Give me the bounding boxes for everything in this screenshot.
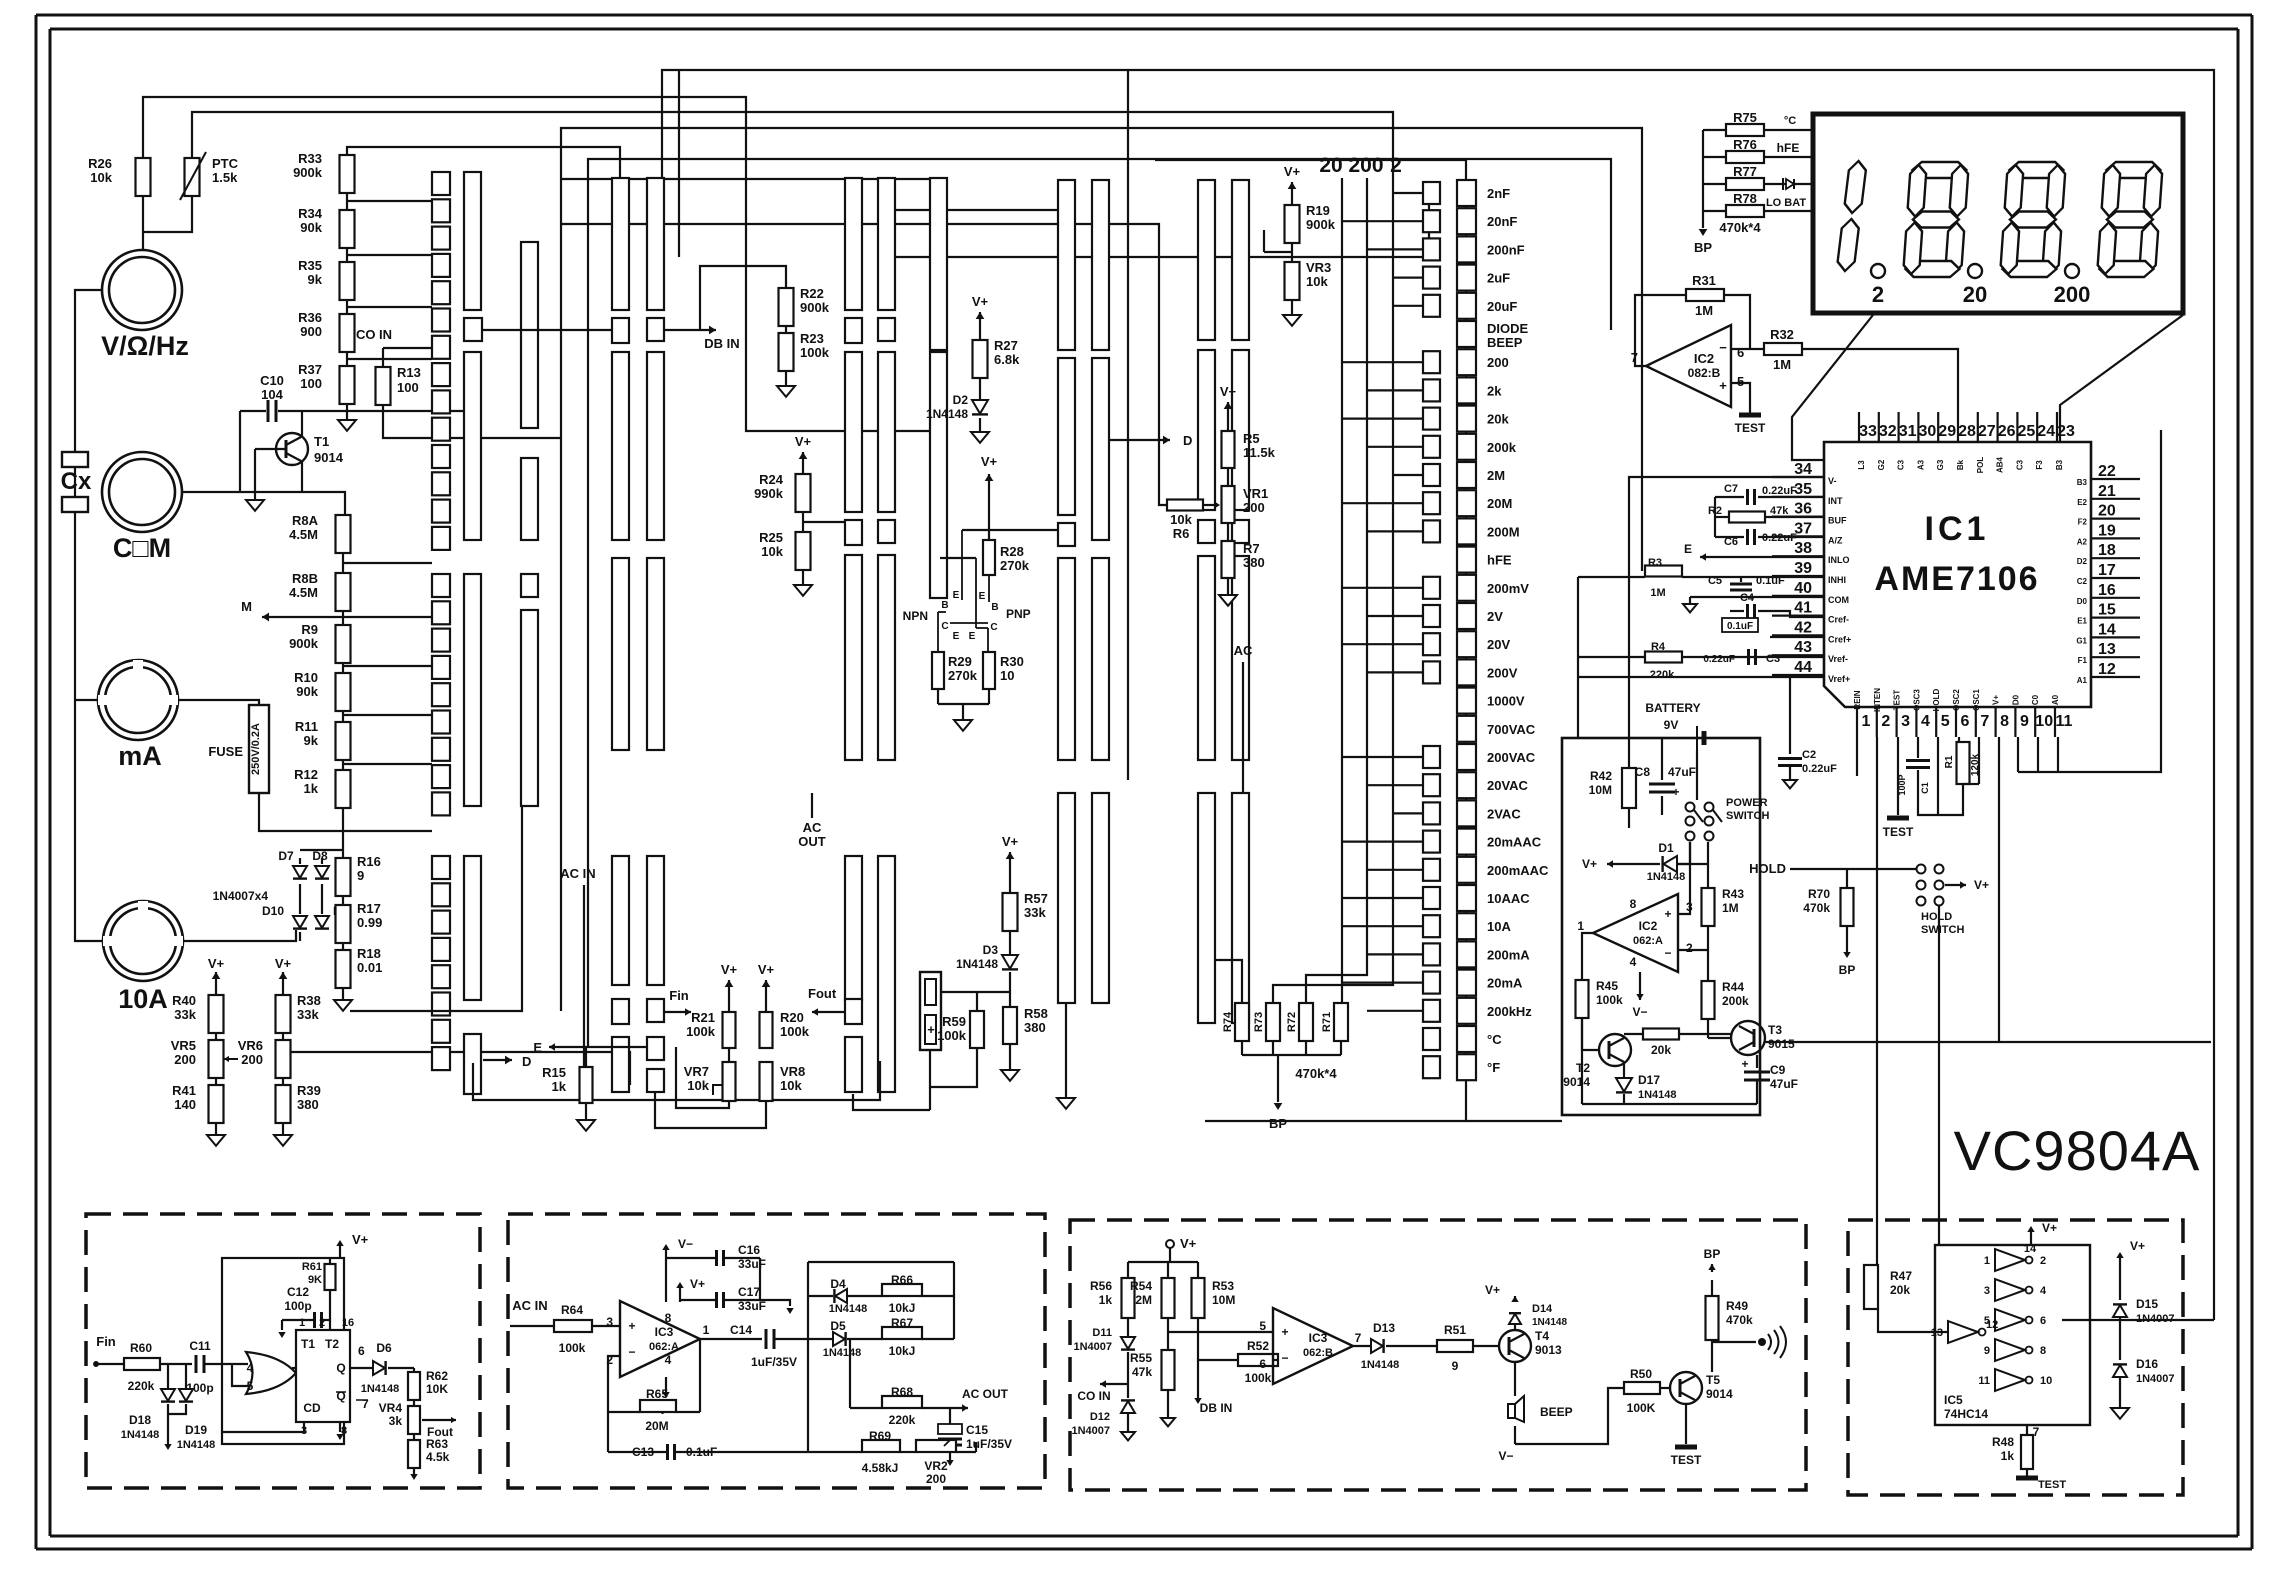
wire T3 <box>1707 1019 1709 1038</box>
wire VR1-R7 <box>1227 523 1229 541</box>
svg-text:VR1: VR1 <box>1243 486 1268 501</box>
resistor R28 270k <box>983 540 995 575</box>
svg-text:HOLD: HOLD <box>1749 861 1786 876</box>
resistor R55 47k <box>1162 1350 1175 1390</box>
resistor R69 4.58kJ <box>862 1440 900 1452</box>
svg-text:17: 17 <box>2098 562 2116 579</box>
wire DB IN to R22 <box>700 266 786 330</box>
wire T4 emitter <box>1514 1362 1516 1396</box>
power V- IC3A bottom <box>665 1377 667 1392</box>
svg-text:1M: 1M <box>1695 303 1713 318</box>
svg-text:11: 11 <box>1978 1375 1990 1387</box>
node Fout box1 <box>422 1419 456 1421</box>
svg-text:BUF: BUF <box>1828 516 1847 526</box>
resistor R15 1k <box>585 1047 587 1067</box>
svg-text:C: C <box>941 621 948 632</box>
svg-text:V+: V+ <box>1180 1236 1197 1251</box>
svg-text:900k: 900k <box>289 636 319 651</box>
resistor R7 380 <box>1222 541 1235 578</box>
svg-text:37: 37 <box>1794 520 1812 537</box>
wire IC4 pins <box>292 1367 296 1369</box>
capacitor C2 0.22uF <box>1789 677 1791 754</box>
svg-text:R25: R25 <box>759 530 783 545</box>
switch bar column S3 <box>521 242 538 428</box>
svg-text:10: 10 <box>2035 713 2053 730</box>
resistor R68 220k <box>882 1396 922 1408</box>
chip IC1 right pins 22-12 <box>2091 478 2140 480</box>
wire top bus E <box>588 159 1611 1047</box>
svg-text:4: 4 <box>1630 955 1637 969</box>
svg-text:R43: R43 <box>1722 887 1744 901</box>
resistor R18 0.01 <box>336 950 351 988</box>
switch bar column M3a <box>1058 180 1075 350</box>
svg-text:V+: V+ <box>972 294 989 309</box>
ground D12 <box>1127 1412 1129 1432</box>
svg-text:R9: R9 <box>301 622 318 637</box>
svg-text:9013: 9013 <box>1535 1343 1562 1357</box>
resistor R36 900 <box>340 314 355 352</box>
svg-text:270k: 270k <box>1000 558 1030 573</box>
node M arrow <box>342 611 344 625</box>
svg-text:74HC14: 74HC14 <box>1944 1407 1988 1421</box>
trimmer VR8 10k <box>760 1062 773 1101</box>
svg-text:DIODE: DIODE <box>1487 321 1529 336</box>
wire R19-VR3 <box>1291 243 1293 262</box>
svg-text:1: 1 <box>1984 1255 1990 1267</box>
wire IC2B pin5 TEST <box>1731 383 1750 413</box>
svg-text:200V: 200V <box>1487 665 1518 680</box>
svg-text:4.5k: 4.5k <box>426 1450 450 1464</box>
svg-text:100p: 100p <box>284 1299 311 1313</box>
trimmer VR1 200 <box>1222 486 1235 523</box>
svg-text:E: E <box>533 1040 542 1055</box>
svg-text:V+: V+ <box>981 454 998 469</box>
wire R8A-R8B <box>342 553 344 573</box>
resistor R63 4.5k <box>408 1440 420 1468</box>
svg-text:V+: V+ <box>208 956 225 971</box>
ground R39 <box>282 1123 284 1135</box>
fuse FUSE 250V/0.2A <box>249 705 269 793</box>
svg-text:R68: R68 <box>891 1385 913 1399</box>
node CO IN box3 <box>1100 1383 1128 1385</box>
svg-text:220k: 220k <box>1650 669 1675 681</box>
svg-text:D: D <box>522 1054 531 1069</box>
inverter IC5 gate 9-8 <box>1995 1339 2025 1361</box>
svg-text:39: 39 <box>1794 560 1812 577</box>
svg-text:R65: R65 <box>646 1387 668 1401</box>
svg-text:C14: C14 <box>730 1323 752 1337</box>
svg-text:200kHz: 200kHz <box>1487 1004 1532 1019</box>
resistor R66 10kJ <box>882 1284 922 1296</box>
jack mA <box>98 660 178 740</box>
resistor R25 10k <box>796 532 811 570</box>
wire C10 left <box>240 410 266 412</box>
svg-text:V+: V+ <box>1284 164 1301 179</box>
resistor R51 9 <box>1437 1340 1473 1352</box>
svg-text:+: + <box>628 1319 635 1333</box>
svg-text:36: 36 <box>1794 501 1812 518</box>
svg-text:R4: R4 <box>1651 641 1666 653</box>
ground R63 <box>413 1468 415 1474</box>
svg-text:1k: 1k <box>304 781 319 796</box>
svg-text:1N4148: 1N4148 <box>361 1383 400 1395</box>
display decimal point dp1 <box>1871 264 1885 278</box>
svg-text:R63: R63 <box>426 1437 448 1451</box>
power V+ IC3A <box>679 1288 681 1302</box>
wire ladder top <box>1155 160 1466 180</box>
dashed block AC converter <box>508 1214 1045 1488</box>
svg-text:SWITCH: SWITCH <box>1921 924 1964 936</box>
svg-text:R54: R54 <box>1130 1279 1152 1293</box>
svg-text:E: E <box>1684 542 1692 556</box>
svg-text:A1: A1 <box>2077 676 2088 685</box>
svg-text:C9: C9 <box>1770 1063 1786 1077</box>
switch bar column M2b <box>878 178 895 310</box>
svg-text:R18: R18 <box>357 946 381 961</box>
svg-text:R20: R20 <box>780 1010 804 1025</box>
wire T4 to V- <box>1514 1426 1516 1444</box>
svg-text:380: 380 <box>1243 555 1265 570</box>
svg-text:R1: R1 <box>1944 755 1955 768</box>
capacitor C17 33uF <box>715 1292 718 1308</box>
svg-text:C0: C0 <box>2031 694 2040 705</box>
wire R16-R17 <box>342 896 344 905</box>
svg-text:200k: 200k <box>1487 440 1517 455</box>
svg-text:20uF: 20uF <box>1487 299 1517 314</box>
svg-text:+: + <box>1672 785 1679 799</box>
svg-text:9015: 9015 <box>1768 1037 1795 1051</box>
wire R45 <box>1582 933 1593 980</box>
svg-text:200: 200 <box>241 1052 263 1067</box>
resistor R59 100k <box>970 1011 984 1048</box>
svg-text:100: 100 <box>397 380 419 395</box>
capacitor C15 1uF/35V <box>949 1408 951 1424</box>
svg-text:2M: 2M <box>1135 1293 1152 1307</box>
wire R26 to jack <box>142 196 144 250</box>
svg-text:20V: 20V <box>1487 637 1510 652</box>
svg-text:200: 200 <box>926 1472 946 1486</box>
svg-text:9: 9 <box>357 868 364 883</box>
resistor R58 380 <box>1009 972 1011 1007</box>
svg-text:8: 8 <box>665 1311 672 1325</box>
svg-text:AC IN: AC IN <box>512 1298 547 1313</box>
wire R71-74 bottoms <box>1241 1041 1243 1055</box>
svg-text:R37: R37 <box>298 362 322 377</box>
wire mid bus H <box>561 178 930 180</box>
svg-text:200M: 200M <box>1487 524 1520 539</box>
svg-text:20VAC: 20VAC <box>1487 778 1529 793</box>
wire mid bus F <box>888 193 1429 257</box>
svg-text:10M: 10M <box>1589 783 1612 797</box>
svg-text:E: E <box>953 590 960 601</box>
svg-text:15: 15 <box>2098 602 2116 619</box>
svg-text:INTEN: INTEN <box>1873 688 1882 712</box>
inverter IC5 gate 1-2 <box>1995 1249 2025 1271</box>
ground R41 <box>215 1123 217 1135</box>
diode D3 1N4148 <box>1009 931 1011 955</box>
svg-text:R22: R22 <box>800 286 824 301</box>
wire R40-VR5 <box>215 1033 217 1040</box>
dashed block inverter <box>1848 1220 2183 1495</box>
svg-text:V+: V+ <box>795 434 812 449</box>
svg-text:20: 20 <box>1319 154 1342 177</box>
svg-text:30: 30 <box>1919 423 1937 440</box>
wire IC2A plus <box>1678 864 1690 914</box>
wire R49-T5 <box>1711 1340 1713 1372</box>
svg-text:10k: 10k <box>1306 274 1328 289</box>
svg-text:FUSE: FUSE <box>208 744 243 759</box>
svg-text:10kJ: 10kJ <box>889 1301 916 1315</box>
svg-text:B3: B3 <box>2077 478 2088 487</box>
svg-text:F2: F2 <box>2078 518 2088 527</box>
svg-text:BP: BP <box>1839 963 1856 977</box>
resistor R65 20M <box>640 1400 676 1412</box>
wire C7R2C6 bracket <box>1714 497 1716 537</box>
svg-text:1k: 1k <box>2001 1449 2015 1463</box>
svg-text:1: 1 <box>703 1323 710 1337</box>
resistor R70 470k <box>1841 888 1854 926</box>
resistor R26 <box>136 158 151 196</box>
power V+ hold <box>1945 884 1966 886</box>
wire R59 <box>941 991 1010 993</box>
svg-text:200VAC: 200VAC <box>1487 750 1536 765</box>
svg-text:R55: R55 <box>1130 1351 1152 1365</box>
svg-text:8: 8 <box>1630 897 1637 911</box>
svg-text:R62: R62 <box>426 1369 448 1383</box>
power V+ IC4 <box>339 1246 341 1258</box>
capacitor C7 0.22uF <box>1746 489 1749 505</box>
svg-text:380: 380 <box>297 1097 319 1112</box>
svg-text:PTC: PTC <box>212 156 239 171</box>
svg-text:0.22uF: 0.22uF <box>1802 763 1837 775</box>
diode D17 1N4148 <box>1623 1062 1625 1078</box>
svg-text:Q: Q <box>336 1361 345 1375</box>
capacitor C3 0.22uF <box>1747 649 1750 665</box>
svg-text:13: 13 <box>1931 1327 1943 1339</box>
svg-text:16: 16 <box>342 1317 354 1329</box>
capacitor C9 47uF <box>1756 1055 1758 1068</box>
wire top bus A <box>662 70 2214 1320</box>
svg-text:C11: C11 <box>189 1339 211 1353</box>
power V+ D1 <box>1607 863 1660 865</box>
svg-text:R56: R56 <box>1090 1279 1112 1293</box>
svg-text:8: 8 <box>2000 713 2009 730</box>
node BP mid <box>1274 1103 1283 1110</box>
svg-text:100k: 100k <box>559 1341 586 1355</box>
capacitor C10 104 <box>267 400 270 422</box>
svg-text:90k: 90k <box>296 684 318 699</box>
svg-text:10: 10 <box>2040 1375 2052 1387</box>
svg-text:VR8: VR8 <box>780 1064 805 1079</box>
svg-text:Cref-: Cref- <box>1828 615 1849 625</box>
svg-text:D4: D4 <box>830 1277 846 1291</box>
svg-text:100: 100 <box>300 376 322 391</box>
inverter IC5 gate 11-10 <box>1995 1369 2025 1391</box>
svg-text:1: 1 <box>299 1317 305 1329</box>
switch bar column M3b <box>1092 180 1109 350</box>
switch bar column M2a <box>845 178 862 310</box>
svg-text:1000V: 1000V <box>1487 694 1525 709</box>
wire display funnel right <box>2060 315 2183 442</box>
svg-text:C3: C3 <box>1766 653 1780 665</box>
node BP box3 <box>1711 1280 1713 1296</box>
wire pin42 <box>1770 636 1824 638</box>
svg-text:1N4007: 1N4007 <box>1073 1341 1112 1353</box>
svg-text:D11: D11 <box>1092 1327 1112 1339</box>
resistor R56 1k <box>1122 1278 1135 1318</box>
svg-text:7: 7 <box>1980 713 1989 730</box>
wire IC3A out <box>700 1338 762 1340</box>
resistor R43 1M <box>1702 888 1715 926</box>
svg-text:−: − <box>1719 340 1727 355</box>
resistor R13 100 <box>376 367 391 405</box>
wire D6-R62 <box>388 1367 414 1369</box>
svg-text:3: 3 <box>1984 1285 1990 1297</box>
svg-text:T1: T1 <box>314 434 329 449</box>
svg-text:1M: 1M <box>1650 587 1665 599</box>
svg-text:470k*4: 470k*4 <box>1295 1066 1337 1081</box>
svg-text:V+: V+ <box>1220 384 1237 399</box>
wire R28 crossbar <box>962 529 1058 531</box>
svg-text:R8A: R8A <box>292 513 319 528</box>
svg-text:AC: AC <box>1234 643 1253 658</box>
ground R58 <box>1009 1044 1011 1070</box>
svg-text:R30: R30 <box>1000 654 1024 669</box>
svg-text:4: 4 <box>1921 713 1930 730</box>
svg-text:9V: 9V <box>1664 718 1679 732</box>
diode symbol pin77 <box>1782 178 1784 190</box>
svg-text:V+: V+ <box>352 1232 369 1247</box>
capacitor C4 0.1uF <box>1746 604 1749 618</box>
svg-text:V−: V− <box>1632 1005 1647 1019</box>
svg-text:VR3: VR3 <box>1306 260 1331 275</box>
svg-text:1k: 1k <box>552 1079 567 1094</box>
trimmer VR5 200 <box>209 1040 224 1078</box>
svg-text:C: C <box>990 622 997 633</box>
ground R55 <box>1167 1390 1169 1418</box>
svg-text:CD: CD <box>303 1401 321 1415</box>
svg-text:1N4148: 1N4148 <box>823 1347 862 1359</box>
svg-text:V+: V+ <box>721 962 738 977</box>
resistor R10 90k <box>336 673 351 711</box>
svg-text:0.99: 0.99 <box>357 915 382 930</box>
diode D9 <box>315 916 329 928</box>
svg-text:6.8k: 6.8k <box>994 352 1020 367</box>
svg-text:100K: 100K <box>1627 1401 1656 1415</box>
svg-text:R66: R66 <box>891 1273 913 1287</box>
svg-text:E1: E1 <box>2077 617 2087 626</box>
capacitor C8 47uF <box>1649 783 1675 786</box>
svg-text:2k: 2k <box>1487 383 1502 398</box>
wire R17-R18 <box>342 943 344 950</box>
ground R37 <box>346 404 348 420</box>
svg-text:NPN: NPN <box>903 609 928 623</box>
svg-text:G2: G2 <box>1877 459 1886 470</box>
thermistor PTC 1.5k <box>185 158 200 196</box>
svg-text:2V: 2V <box>1487 609 1503 624</box>
svg-text:BEEP: BEEP <box>1487 335 1523 350</box>
wire VR7 VR8 bottoms <box>676 1047 729 1108</box>
svg-text:6: 6 <box>2040 1315 2046 1327</box>
svg-text:470k: 470k <box>1803 901 1830 915</box>
svg-text:29: 29 <box>1938 423 1956 440</box>
svg-text:DB IN: DB IN <box>704 336 739 351</box>
svg-text:°F: °F <box>1487 1060 1500 1075</box>
ground T1 <box>254 492 256 500</box>
svg-text:A/Z: A/Z <box>1828 535 1843 545</box>
chip IC5 74HC14 box <box>1935 1245 2090 1425</box>
power V- IC2A <box>1639 972 1641 1000</box>
chip IC1 top pins 33-23 <box>1858 412 1860 442</box>
svg-text:TEST: TEST <box>1671 1453 1702 1467</box>
svg-text:1N4148: 1N4148 <box>1361 1359 1400 1371</box>
svg-text:32: 32 <box>1879 423 1897 440</box>
diode D14 1N4148 <box>1509 1314 1521 1324</box>
svg-text:10M: 10M <box>1212 1293 1235 1307</box>
svg-text:D5: D5 <box>830 1319 846 1333</box>
chip IC4 14528B outer <box>222 1258 344 1444</box>
svg-text:IC2: IC2 <box>1694 351 1714 366</box>
op-amp IC2 082:B <box>1646 325 1731 407</box>
ground R25 <box>802 570 804 585</box>
svg-text:1uF/35V: 1uF/35V <box>751 1355 797 1369</box>
resistor R54 2M <box>1162 1278 1175 1318</box>
svg-text:OSC2: OSC2 <box>1952 689 1961 711</box>
wire T5 emitter TEST <box>1685 1404 1687 1444</box>
svg-text:R41: R41 <box>172 1083 196 1098</box>
svg-text:C8: C8 <box>1635 765 1651 779</box>
resistor R2 47k <box>1729 512 1765 523</box>
svg-text:1N4148: 1N4148 <box>1647 871 1686 883</box>
wire PTC join <box>143 196 192 232</box>
resistor R32 1M <box>1764 343 1802 355</box>
svg-text:D6: D6 <box>376 1341 392 1355</box>
svg-text:9: 9 <box>1984 1345 1990 1357</box>
svg-text:1N4148: 1N4148 <box>177 1439 216 1451</box>
display digit 8 first <box>1903 162 1969 277</box>
display digit 8 third <box>2097 162 2163 277</box>
transistor T2 9014 <box>1599 1034 1631 1066</box>
svg-text:11.5k: 11.5k <box>1243 445 1276 460</box>
svg-text:V+: V+ <box>1485 1283 1500 1297</box>
connector plus block <box>920 972 941 1050</box>
diode D10 <box>293 916 307 928</box>
svg-text:R58: R58 <box>1024 1006 1048 1021</box>
trimmer VR3 10k <box>1285 262 1300 300</box>
svg-text:D15: D15 <box>2136 1297 2158 1311</box>
svg-text:13: 13 <box>2098 641 2116 658</box>
svg-text:200mV: 200mV <box>1487 581 1529 596</box>
svg-text:G1: G1 <box>2076 636 2087 645</box>
wire R5-VR1 <box>1227 468 1229 486</box>
wire R32 to pin28 <box>1802 349 1958 412</box>
svg-text:900: 900 <box>300 324 322 339</box>
trimmer VR6 200 <box>276 1040 291 1078</box>
transistor T4 9013 <box>1499 1330 1531 1362</box>
ground VR3 <box>1291 300 1293 315</box>
jack V/Ohm/Hz <box>102 250 182 330</box>
diode D13 1N4148 <box>1371 1339 1383 1353</box>
svg-text:1N4148: 1N4148 <box>1532 1317 1567 1328</box>
svg-text:R59: R59 <box>942 1014 966 1029</box>
battery block box <box>1562 738 1760 1115</box>
wire R36-R37 <box>346 352 348 366</box>
jack 10A <box>103 901 183 981</box>
wire T3 emitter rail <box>1765 1041 2211 1043</box>
svg-text:26: 26 <box>1998 423 2016 440</box>
switch bar column M1a <box>612 178 629 310</box>
wire R33-R34 <box>346 193 348 210</box>
